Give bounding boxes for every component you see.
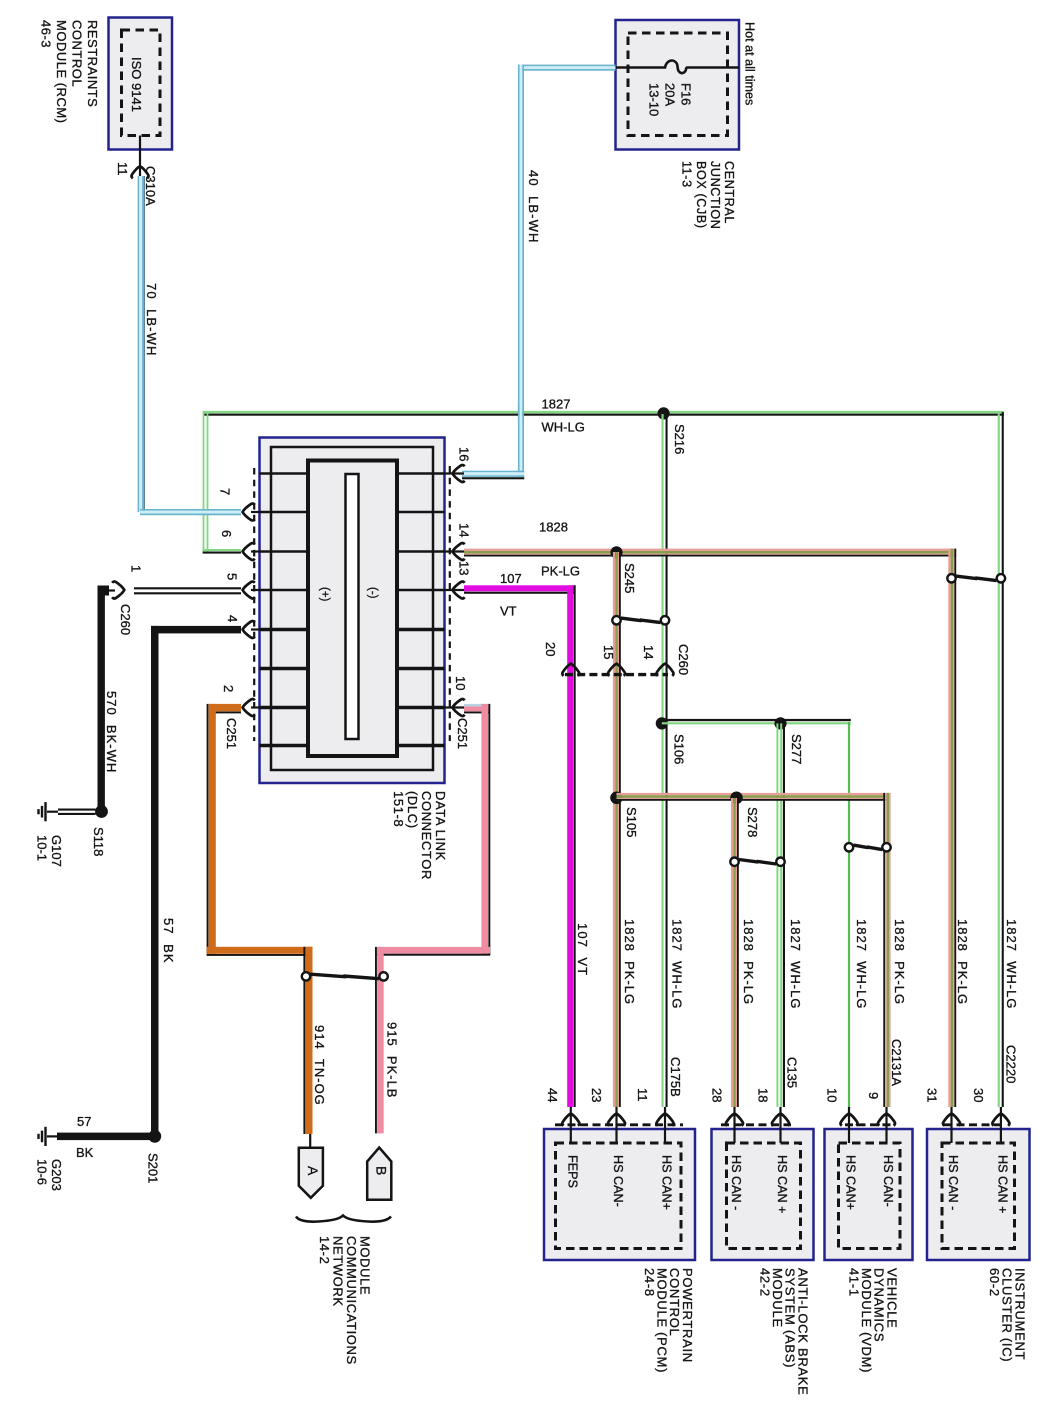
wire 57 BK to ground — [57, 1133, 151, 1141]
terminal B — [367, 1148, 391, 1200]
connector C310A — [143, 166, 158, 206]
svg-text:13: 13 — [456, 561, 471, 575]
svg-text:(-): (-) — [366, 587, 378, 599]
pin 11 lead from RCM — [139, 136, 141, 177]
svg-text:CONTROL: CONTROL — [69, 20, 84, 87]
svg-text:15: 15 — [601, 645, 616, 659]
ground G107 symbol — [39, 802, 59, 821]
DLC dashed connector lines — [254, 466, 450, 741]
label 57 BK — [161, 918, 176, 964]
svg-text:20: 20 — [543, 642, 558, 656]
brace module communications network — [296, 1216, 391, 1222]
splice S201 — [148, 1130, 161, 1143]
DLC pin 2 arrow — [243, 699, 260, 716]
label WH-LG — [542, 420, 585, 435]
label G107 10-1 — [34, 835, 64, 867]
label 1827 WH-LG to PCM — [669, 919, 684, 1009]
svg-text:HS CAN +: HS CAN + — [995, 1155, 1009, 1213]
wire 914 TN-OG horizontal — [207, 947, 313, 956]
label 1 — [128, 565, 143, 572]
svg-text:JUNCTION: JUNCTION — [708, 161, 722, 229]
svg-text:B: B — [374, 1166, 390, 1175]
label 1828 PK-LG to IC — [955, 919, 970, 1005]
svg-text:G107: G107 — [49, 835, 64, 867]
svg-text:4: 4 — [225, 615, 240, 622]
label 914 TN-OG — [312, 1025, 327, 1106]
label 15 — [601, 645, 616, 659]
wire 570 BK-WH corner — [98, 586, 110, 596]
DLC pin 16 arrow — [445, 465, 465, 482]
label 11 — [115, 162, 130, 176]
svg-text:1828 PK-LG: 1828 PK-LG — [622, 919, 637, 1005]
label 107 — [500, 571, 522, 586]
connector C251 right — [455, 718, 470, 749]
wire 57 BK stub pin 4 — [151, 626, 241, 634]
svg-text:23: 23 — [589, 1088, 604, 1102]
label Hot at all times — [743, 22, 757, 105]
svg-text:9: 9 — [866, 1092, 881, 1099]
splice S216 — [658, 407, 670, 419]
module IC — [924, 1045, 1029, 1362]
svg-text:570 BK-WH: 570 BK-WH — [104, 691, 119, 773]
svg-text:1827 WH-LG: 1827 WH-LG — [854, 919, 869, 1009]
splice S277 — [774, 717, 786, 729]
wire 915 PK-LB vertical 2 — [375, 947, 384, 1134]
wire to C260 pin 1 — [109, 589, 115, 591]
wire 57 BK vertical — [151, 626, 159, 1136]
module VDM — [824, 1039, 912, 1373]
terminal A — [299, 1148, 323, 1198]
wire 1828 PK-LG main horizontal — [464, 549, 956, 557]
svg-text:Hot at all times: Hot at all times — [743, 22, 757, 105]
label pin 5 — [224, 573, 239, 580]
svg-text:14: 14 — [641, 645, 656, 659]
svg-text:C2131A: C2131A — [889, 1039, 904, 1086]
label VT — [500, 604, 517, 619]
ground G203 symbol — [39, 1127, 59, 1146]
label 40 LB-WH — [526, 170, 541, 243]
splice S278 — [730, 792, 743, 805]
svg-text:C260: C260 — [118, 604, 133, 635]
lead to terminal A — [309, 1134, 311, 1148]
svg-text:1828 PK-LG: 1828 PK-LG — [955, 919, 970, 1005]
label 1827 — [542, 397, 571, 412]
label 1827 WH-LG to ABS — [788, 919, 803, 1009]
svg-text:HS CAN -: HS CAN - — [729, 1155, 743, 1210]
label 14 at C260 — [641, 645, 656, 659]
svg-text:1827 WH-LG: 1827 WH-LG — [788, 919, 803, 1009]
svg-text:C251: C251 — [455, 718, 470, 749]
svg-text:60-2: 60-2 — [987, 1268, 1002, 1297]
svg-text:5: 5 — [224, 573, 239, 580]
svg-text:1827 WH-LG: 1827 WH-LG — [1004, 919, 1019, 1009]
label G203 10-6 — [34, 1159, 64, 1191]
svg-text:1828: 1828 — [539, 520, 568, 535]
svg-text:C135: C135 — [784, 1057, 799, 1088]
wire 1828 PK-LG corner to IC pin 31 — [948, 549, 956, 1107]
svg-text:C251: C251 — [224, 718, 239, 749]
svg-text:46-3: 46-3 — [38, 20, 53, 48]
module ABS — [709, 1057, 813, 1396]
svg-text:C175B: C175B — [668, 1057, 683, 1097]
module CJB fuse box — [616, 20, 740, 150]
DLC internal pin lines — [260, 474, 445, 746]
svg-text:HS CAN-: HS CAN- — [611, 1155, 625, 1207]
label DATA LINK CONNECTOR (DLC) 151-8 — [391, 791, 448, 880]
DLC pin 5 arrow — [243, 582, 260, 599]
svg-text:1827: 1827 — [542, 397, 571, 412]
label S106 — [671, 734, 686, 764]
wire 914 TN-OG stub pin 2 — [209, 704, 241, 714]
wire 1827 WH-LG S277 drop to ABS pin 18 — [776, 723, 785, 1107]
label pin 2 — [221, 685, 236, 692]
svg-text:31: 31 — [924, 1088, 939, 1102]
splice S106 — [656, 717, 668, 729]
label F16 20A 13-10 — [646, 83, 693, 116]
connector DLC box — [260, 438, 445, 784]
wire BK-WH double line to pin 5 — [134, 588, 241, 593]
label pin 16 — [456, 447, 471, 461]
label 1828 PK-LG to ABS — [741, 919, 756, 1005]
wire 1827 WH-LG main horizontal — [204, 411, 1004, 416]
label PK-LG — [541, 564, 580, 579]
svg-text:14: 14 — [456, 523, 471, 537]
wire 1828 PK-LG S105 bus horizontal — [617, 793, 891, 801]
DLC pin 6 arrow — [243, 543, 260, 560]
svg-text:1827 WH-LG: 1827 WH-LG — [669, 919, 684, 1009]
label pin 6 — [219, 530, 234, 537]
label 1828 PK-LG to PCM — [622, 919, 637, 1005]
wire 107 VT vertical to PCM pin 44 — [567, 585, 575, 1107]
svg-text:WH-LG: WH-LG — [542, 420, 585, 435]
svg-text:7: 7 — [217, 488, 232, 495]
svg-text:18: 18 — [755, 1088, 770, 1102]
arrow C260 pin 1 — [112, 582, 124, 599]
svg-text:70 LB-WH: 70 LB-WH — [144, 283, 159, 356]
wire 1827 WH-LG left leg to pin 6 — [203, 411, 241, 554]
svg-text:11: 11 — [115, 162, 130, 176]
svg-text:(DLC): (DLC) — [405, 791, 420, 829]
wire 1827 WH-LG S106 branch horizontal — [662, 719, 851, 725]
svg-text:16: 16 — [456, 447, 471, 461]
svg-text:41-1: 41-1 — [847, 1268, 862, 1297]
label 70 LB-WH — [144, 283, 159, 356]
splice S118 — [95, 805, 108, 818]
module PCM — [544, 1057, 695, 1373]
label BK — [76, 1145, 94, 1160]
svg-text:CENTRAL: CENTRAL — [722, 161, 736, 224]
svg-text:44: 44 — [545, 1088, 560, 1102]
twisted pair A-B — [302, 972, 388, 980]
svg-text:40 LB-WH: 40 LB-WH — [526, 170, 541, 243]
svg-text:915 PK-LB: 915 PK-LB — [384, 1022, 399, 1099]
svg-text:10: 10 — [453, 676, 468, 690]
svg-text:DATA LINK: DATA LINK — [433, 791, 448, 861]
svg-text:S277: S277 — [789, 734, 804, 764]
label 1828 PK-LG to VDM — [892, 919, 907, 1005]
svg-text:13-10: 13-10 — [646, 83, 661, 116]
svg-text:G203: G203 — [49, 1159, 64, 1191]
label S201 — [145, 1153, 160, 1183]
label S118 — [91, 827, 106, 856]
wire 40 LB-WH over crossing — [518, 405, 524, 422]
svg-text:HS CAN -: HS CAN - — [946, 1155, 960, 1210]
svg-text:30: 30 — [971, 1088, 986, 1102]
DLC pin 14 arrow — [445, 543, 470, 560]
svg-text:107: 107 — [500, 571, 522, 586]
svg-text:ISO 9141: ISO 9141 — [129, 57, 144, 112]
wire 1827 WH-LG S216 drop to PCM pin 11 — [662, 414, 668, 1107]
svg-text:HS CAN+: HS CAN+ — [660, 1155, 674, 1210]
splice S105 — [610, 792, 623, 805]
label S277 — [789, 734, 804, 764]
svg-text:151-8: 151-8 — [391, 791, 406, 827]
wire 1827 WH-LG right leg to IC pin 30 — [998, 412, 1004, 1107]
svg-text:C2220: C2220 — [1003, 1045, 1018, 1083]
svg-text:57: 57 — [77, 1114, 91, 1129]
label 570 BK-WH — [104, 691, 119, 773]
svg-text:20A: 20A — [662, 83, 677, 106]
label RESTRAINTS CONTROL MODULE (RCM) 46-3 — [38, 20, 100, 124]
wire 915 PK-LB horizontal — [377, 947, 490, 956]
module RCM box — [109, 18, 173, 150]
svg-text:BOX (CJB): BOX (CJB) — [694, 161, 708, 229]
svg-text:HS CAN+: HS CAN+ — [844, 1155, 858, 1210]
label 1827 WH-LG to VDM — [854, 919, 869, 1009]
svg-text:6: 6 — [219, 530, 234, 537]
label pin 14 — [456, 523, 471, 537]
svg-text:RESTRAINTS: RESTRAINTS — [85, 20, 100, 107]
wire 1828 PK-LG drop to VDM pin 9 — [883, 793, 890, 1107]
twisted pair IC — [947, 574, 1005, 582]
svg-text:HS CAN-: HS CAN- — [881, 1155, 895, 1207]
svg-text:S118: S118 — [91, 827, 106, 856]
svg-text:S216: S216 — [672, 424, 687, 454]
svg-text:10-6: 10-6 — [34, 1159, 49, 1185]
DLC pin 4 arrow — [243, 621, 260, 638]
svg-text:F16: F16 — [678, 83, 693, 105]
svg-text:S106: S106 — [671, 734, 686, 764]
wire 915 PK-LB vertical 1 — [481, 704, 490, 955]
svg-text:10: 10 — [824, 1088, 839, 1102]
wire 40 LB-WH stub to pin 16 — [462, 471, 524, 480]
svg-text:C260: C260 — [676, 644, 691, 675]
label pin 13 — [456, 561, 471, 575]
svg-text:S278: S278 — [745, 807, 760, 837]
svg-text:HS CAN +: HS CAN + — [775, 1155, 789, 1213]
twisted pair VDM — [845, 843, 891, 851]
connector C260 dashed line — [565, 673, 668, 676]
svg-text:CONNECTOR: CONNECTOR — [419, 791, 434, 880]
svg-text:11: 11 — [635, 1088, 650, 1102]
label pin 7 — [217, 488, 232, 495]
svg-text:VT: VT — [500, 604, 517, 619]
wire 915 PK-LB stub pin 10 — [464, 704, 490, 714]
wire 70 LB-WH vertical — [138, 176, 145, 512]
label S278 — [745, 807, 760, 837]
arrow pin 14 C260 — [657, 664, 674, 676]
svg-text:S201: S201 — [145, 1153, 160, 1183]
label CENTRAL JUNCTION BOX (CJB) 11-3 — [680, 161, 737, 229]
label S216 — [672, 424, 687, 454]
splice S245 — [610, 546, 622, 558]
label 107 VT to PCM — [575, 923, 590, 976]
wire 1828 PK-LG S245 drop to PCM pin 23 — [613, 552, 621, 1107]
svg-text:24-8: 24-8 — [642, 1268, 657, 1297]
DLC pin 7 arrow — [243, 504, 260, 521]
svg-text:42-2: 42-2 — [758, 1268, 773, 1297]
connector C260 at pin 1 — [118, 604, 133, 635]
arrow pin 15 — [608, 664, 625, 676]
fuse F16 element — [616, 61, 740, 74]
svg-text:S105: S105 — [624, 807, 639, 837]
wire 107 VT horizontal from pin 13 — [464, 585, 575, 594]
svg-text:14-2: 14-2 — [317, 1236, 332, 1264]
connector C260 label — [676, 644, 691, 675]
svg-text:C310A: C310A — [143, 166, 158, 206]
svg-text:57 BK: 57 BK — [161, 918, 176, 964]
twisted pair ABS — [730, 858, 784, 866]
label 57 — [77, 1114, 91, 1129]
svg-text:BK: BK — [76, 1145, 94, 1160]
arrow pin 20 — [562, 664, 579, 676]
wire 1827 WH-LG drop to VDM pin 10 — [848, 722, 850, 1107]
svg-text:MODULE (RCM): MODULE (RCM) — [54, 20, 69, 124]
svg-text:11-3: 11-3 — [680, 161, 694, 188]
label ISO 9141 — [129, 57, 144, 112]
DLC pin 13 arrow — [445, 582, 470, 599]
svg-text:914 TN-OG: 914 TN-OG — [312, 1025, 327, 1106]
wire 914 TN-OG vertical 1 — [207, 704, 216, 954]
svg-text:S245: S245 — [622, 563, 637, 593]
wire 1828 PK-LG drop to ABS pin 28 — [731, 798, 739, 1107]
svg-text:10-1: 10-1 — [34, 835, 49, 861]
svg-text:1: 1 — [128, 565, 143, 572]
DLC pin 10 arrow — [445, 699, 465, 716]
wire 70 LB-WH horizontal to pin 7 — [140, 509, 241, 515]
svg-text:A: A — [305, 1166, 321, 1176]
wire 570 BK-WH vertical — [98, 586, 105, 809]
wire 40 LB-WH vertical — [518, 65, 524, 477]
label (-) — [366, 587, 378, 599]
svg-text:1828 PK-LG: 1828 PK-LG — [892, 919, 907, 1005]
arrow at RCM pin 11 — [132, 166, 149, 178]
connector C251 left — [224, 718, 239, 749]
wire 914 TN-OG vertical 2 — [303, 947, 312, 1134]
label S245 — [622, 563, 637, 593]
svg-text:1828 PK-LG: 1828 PK-LG — [741, 919, 756, 1005]
label S105 — [624, 807, 639, 837]
wire 40 LB-WH horizontal at fuse — [518, 65, 616, 71]
twisted pair PCM — [612, 616, 669, 624]
svg-text:28: 28 — [709, 1088, 724, 1102]
ground lead G107 — [58, 810, 96, 814]
label 915 PK-LB — [384, 1022, 399, 1099]
svg-text:2: 2 — [221, 685, 236, 692]
label pin 4 — [225, 615, 240, 622]
svg-text:107 VT: 107 VT — [575, 923, 590, 976]
label pin 10 — [453, 676, 468, 690]
label (+) — [318, 587, 330, 602]
label MODULE COMMUNICATIONS NETWORK 14-2 — [317, 1236, 373, 1365]
wire 70 LB-WH over crossing — [196, 509, 241, 515]
label 1827 WH-LG to IC — [1004, 919, 1019, 1009]
svg-text:FEPS: FEPS — [565, 1155, 579, 1188]
label 20 — [543, 642, 558, 656]
label 1828 — [539, 520, 568, 535]
svg-text:(+): (+) — [318, 587, 330, 602]
svg-text:PK-LG: PK-LG — [541, 564, 580, 579]
